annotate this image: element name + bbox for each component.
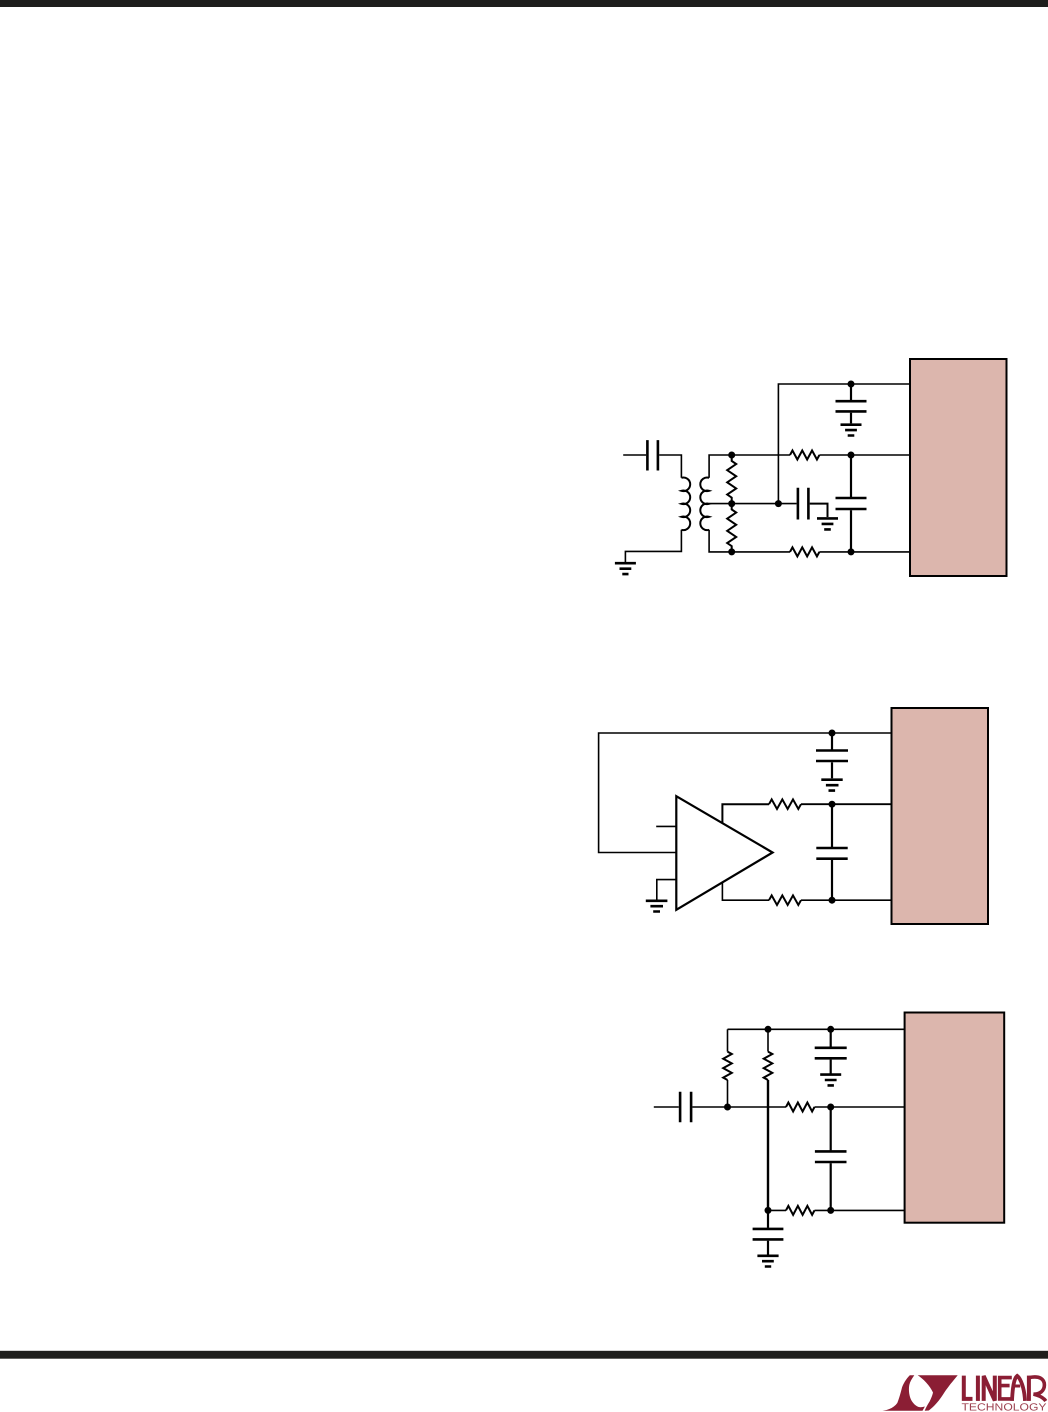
bottom black bar (0, 1351, 1048, 1359)
resistor R7 (bias lower, crosses mid rail) (764, 1029, 773, 1210)
node: top rail junction (848, 381, 855, 388)
wire: mid rail to block (815, 1106, 905, 1108)
svg-text:TECHNOLOGY: TECHNOLOGY (962, 1402, 1047, 1412)
capacitor C8 (bypass on top rail) (815, 1029, 847, 1073)
wire: center tap line (709, 503, 796, 505)
node: center tap at left vertical (775, 500, 782, 507)
wire: bottom rail to block (819, 551, 910, 553)
wire: bottom rail to block (815, 1209, 905, 1211)
node: bottom rail left (765, 1207, 772, 1214)
capacitor C1 (bypass to ground on top rail) (836, 384, 867, 423)
input stub (656, 825, 676, 827)
node: top rail at R7 (765, 1026, 772, 1033)
ground (primary) (615, 563, 636, 574)
ADC block U2 (892, 708, 989, 924)
node: center tap at resistors (728, 500, 735, 507)
top black bar (0, 0, 1048, 7)
wire: ground stub (657, 880, 677, 900)
node: mid rail right (827, 1104, 834, 1111)
wire: top rail, left vertical, feedback to amp (599, 733, 892, 853)
resistor R5 (bottom output series) (769, 895, 801, 905)
capacitor C5 (bypass on top rail) (816, 733, 848, 778)
wire: secondary bottom lead to bottom rail (709, 530, 790, 552)
resistor R1a (secondary upper termination) (727, 455, 736, 504)
capacitor C4 (input DC block) (623, 440, 681, 478)
transformer T1 primary winding (681, 478, 690, 531)
node: bottom output junction (829, 897, 836, 904)
node: mid rail left (728, 452, 735, 459)
capacitor C3 (between ADC inputs) (836, 455, 867, 552)
resistor R9 (bottom rail series) (786, 1206, 814, 1215)
ground (center tap) (817, 518, 838, 529)
wire: top output to block (801, 803, 892, 805)
wire: mid rail to block (819, 454, 910, 456)
capacitor C9 (mid to bottom rail) (815, 1107, 847, 1210)
wire: amp top output (722, 804, 769, 823)
resistor R3 (bottom rail series) (790, 547, 819, 556)
capacitor C2 (center tap decoupling) (798, 488, 809, 520)
node: mid rail left (724, 1104, 731, 1111)
ground (C5) (821, 780, 842, 791)
ADC block U4 (905, 1013, 1005, 1223)
wire: top rail (728, 1028, 905, 1030)
node: top rail junction (829, 730, 836, 737)
wire: cap to small ground (810, 504, 828, 517)
resistor R1b (secondary lower termination) (727, 504, 736, 552)
logo LT mark right swoosh (918, 1375, 958, 1411)
resistor R2 (mid rail series) (790, 451, 819, 460)
ADC block U1 (910, 359, 1007, 576)
ground (amp input) (646, 901, 668, 912)
resistor R4 (top output series) (769, 799, 801, 809)
capacitor C10 (bottom node to ground) (753, 1210, 784, 1254)
capacitor C7 (input DC block) (654, 1092, 786, 1122)
wire: secondary top lead to mid rail (709, 455, 790, 478)
logo LT mark left swoosh (883, 1375, 925, 1411)
logo text LINEAR (964, 1376, 1046, 1401)
capacitor C6 (between outputs) (816, 804, 847, 900)
ground (C8) (820, 1075, 841, 1086)
node: bottom rail right (827, 1207, 834, 1214)
node: top rail at C8 (827, 1026, 834, 1033)
wire: amp bottom output (722, 883, 769, 901)
wire: bottom rail (768, 1209, 786, 1211)
node: top output junction (829, 801, 836, 808)
node: bottom rail right (848, 548, 855, 555)
wire: primary bottom lead to ground (625, 530, 681, 562)
resistor R6 (bias upper) (723, 1029, 732, 1107)
transformer T1 secondary winding (700, 477, 709, 530)
resistor R8 (mid rail series) (786, 1103, 814, 1112)
ground (top bypass) (841, 425, 862, 436)
wire: top rail and left vertical to center tap (778, 384, 910, 504)
ground (C10) (757, 1256, 778, 1267)
wire: bottom output to block (801, 899, 892, 901)
node: mid rail right (848, 452, 855, 459)
op-amp U3 (differential driver) (676, 796, 772, 910)
node: bottom rail left (728, 548, 735, 555)
